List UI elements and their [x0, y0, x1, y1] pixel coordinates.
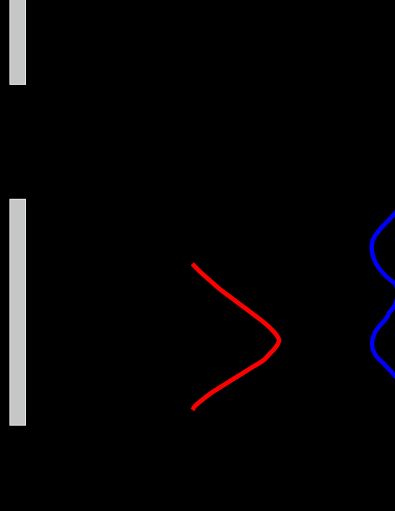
blue curve (interference fringes, clipped at right edge) — [372, 208, 395, 380]
barrier lower segment — [10, 199, 26, 425]
red curve (single-slit envelope) — [192, 264, 279, 410]
barrier upper segment — [10, 0, 26, 84]
